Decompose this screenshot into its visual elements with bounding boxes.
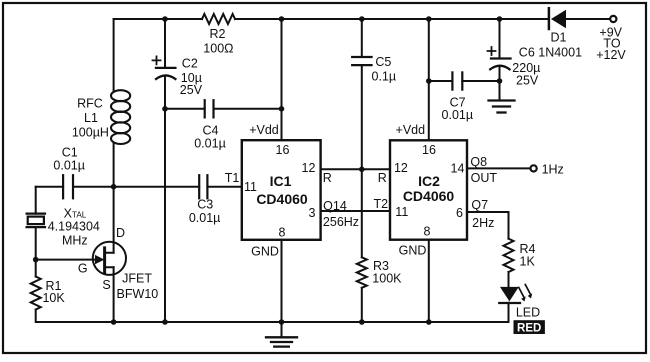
svg-text:T2: T2 — [374, 197, 389, 211]
svg-text:+Vdd: +Vdd — [396, 123, 426, 137]
svg-text:12: 12 — [394, 161, 408, 175]
terminal 1Hz — [531, 165, 537, 171]
svg-text:+12V: +12V — [596, 48, 626, 62]
svg-text:R: R — [323, 171, 332, 185]
wire T2 line — [321, 210, 390, 212]
node rail-C2gnd — [162, 319, 168, 325]
inductor L1 — [72, 90, 130, 144]
transistor Q1 JFET BFW10 — [78, 187, 158, 322]
svg-text:GND: GND — [251, 245, 279, 259]
node rail-C6 — [497, 16, 503, 22]
capacitor C3 — [189, 175, 221, 225]
svg-text:C4: C4 — [203, 123, 219, 137]
svg-text:OUT: OUT — [471, 171, 498, 185]
svg-text:8: 8 — [424, 224, 431, 238]
resistor R3 — [357, 257, 402, 322]
op-amp IC1 CD4060 — [242, 123, 321, 259]
svg-text:MHz: MHz — [62, 233, 88, 247]
node rail-IC1gnd — [279, 319, 285, 325]
svg-text:C3: C3 — [197, 198, 213, 212]
wire top rail — [114, 18, 611, 20]
svg-text:C1: C1 — [62, 145, 78, 159]
capacitor C1 — [53, 145, 85, 198]
diode D1 — [549, 8, 567, 44]
svg-text:3: 3 — [309, 206, 316, 220]
LED RED tag — [514, 320, 545, 334]
svg-text:L1: L1 — [84, 111, 98, 125]
svg-text:10K: 10K — [42, 291, 65, 305]
svg-text:1Hz: 1Hz — [542, 162, 564, 176]
wire IC1 GND — [281, 240, 283, 322]
svg-text:CD4060: CD4060 — [403, 188, 455, 204]
resistor R1 — [31, 277, 66, 310]
svg-text:R: R — [378, 171, 387, 185]
wire bottom rail — [114, 321, 509, 323]
svg-text:G: G — [78, 262, 88, 276]
svg-text:16: 16 — [422, 143, 436, 157]
node C4-C2line — [162, 106, 168, 112]
svg-text:GND: GND — [399, 244, 427, 258]
wire IC1 Vdd — [281, 19, 283, 140]
node C4-Vddline — [279, 106, 285, 112]
svg-text:220µ: 220µ — [512, 61, 540, 75]
svg-text:14: 14 — [451, 161, 465, 175]
capacitor C4 — [165, 100, 282, 150]
capacitor C6 — [488, 19, 583, 101]
LED — [499, 272, 540, 322]
svg-text:C2: C2 — [182, 57, 198, 71]
svg-text:8: 8 — [279, 226, 286, 240]
svg-text:6: 6 — [456, 206, 463, 220]
svg-text:11: 11 — [395, 205, 408, 219]
svg-text:12: 12 — [302, 161, 316, 175]
svg-text:100K: 100K — [372, 271, 402, 285]
wire T1 line — [36, 186, 242, 188]
resistor R2 — [202, 14, 235, 24]
node rail-IC2Vdd — [426, 16, 432, 22]
wire IC2 GND — [428, 240, 430, 322]
svg-text:LED: LED — [516, 306, 540, 320]
resistor R4 — [504, 239, 536, 272]
node T1-drain — [111, 184, 117, 190]
capacitor C2 — [153, 19, 203, 322]
svg-text:R2: R2 — [210, 27, 226, 41]
node rail-R3 — [359, 319, 365, 325]
wire Q7 — [467, 212, 509, 239]
svg-text:Q14: Q14 — [323, 199, 347, 213]
svg-text:1K: 1K — [520, 255, 536, 269]
node R-C5 — [359, 167, 365, 173]
svg-text:0.01µ: 0.01µ — [189, 211, 221, 225]
ground C6 — [489, 101, 515, 113]
node rail-C2 — [162, 16, 168, 22]
svg-text:100Ω: 100Ω — [203, 42, 233, 56]
svg-text:C6 1N4001: C6 1N4001 — [519, 45, 582, 59]
capacitor C5 — [352, 19, 396, 257]
svg-text:Q8: Q8 — [470, 155, 487, 169]
wire IC2 Vdd — [428, 19, 430, 140]
svg-text:25V: 25V — [516, 74, 539, 88]
svg-text:100µH: 100µH — [72, 126, 109, 140]
svg-text:C5: C5 — [375, 55, 391, 69]
svg-text:0.01µ: 0.01µ — [442, 108, 474, 122]
node gate — [33, 257, 39, 263]
svg-text:RFC: RFC — [77, 96, 103, 110]
svg-text:D: D — [116, 226, 125, 240]
node C7-Vdd2 — [426, 78, 432, 84]
svg-text:0.01µ: 0.01µ — [53, 159, 85, 173]
svg-text:JFET: JFET — [122, 272, 152, 286]
svg-text:16: 16 — [276, 143, 290, 157]
svg-text:C7: C7 — [450, 95, 466, 109]
node rail-IC2gnd — [426, 319, 432, 325]
svg-text:IC1: IC1 — [270, 173, 292, 189]
svg-text:S: S — [102, 278, 110, 292]
node source-rail — [111, 319, 117, 325]
ground main — [266, 322, 297, 347]
svg-text:IC2: IC2 — [418, 173, 440, 189]
svg-text:0.01µ: 0.01µ — [194, 137, 226, 151]
svg-text:BFW10: BFW10 — [117, 287, 159, 301]
op-amp IC2 CD4060 — [390, 123, 467, 257]
svg-text:+Vdd: +Vdd — [249, 123, 279, 137]
wire gate — [36, 259, 95, 261]
terminal +9V — [596, 16, 626, 62]
svg-text:11: 11 — [244, 180, 257, 194]
svg-text:RED: RED — [517, 322, 541, 334]
svg-text:T1: T1 — [225, 171, 240, 185]
node C7-C6 — [497, 78, 503, 84]
svg-text:0.1µ: 0.1µ — [372, 69, 397, 83]
wire L1 to T1 node — [113, 144, 115, 187]
crystal XTAL — [27, 207, 100, 248]
svg-text:4.194304: 4.194304 — [48, 220, 100, 234]
svg-text:2Hz: 2Hz — [472, 216, 494, 230]
node rail-IC1Vdd — [279, 16, 285, 22]
capacitor C7 — [429, 72, 500, 122]
svg-text:Q7: Q7 — [471, 198, 488, 212]
wire R line — [321, 168, 390, 170]
svg-text:CD4060: CD4060 — [256, 191, 308, 207]
svg-text:256Hz: 256Hz — [323, 215, 359, 229]
svg-text:25V: 25V — [180, 83, 203, 97]
wire left vertical — [36, 187, 114, 322]
wire Q8 out — [467, 167, 531, 169]
svg-text:D1: D1 — [551, 31, 567, 45]
wire left drop to L1 — [113, 19, 115, 91]
node rail-C5 — [359, 16, 365, 22]
